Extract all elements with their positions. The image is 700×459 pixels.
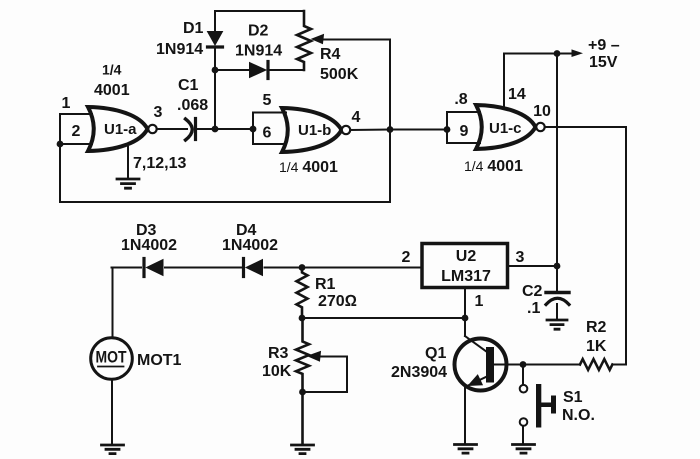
svg-text:D2: D2 [248,23,269,40]
svg-text:2: 2 [72,123,81,140]
NOR gate U1-a (1/4 4001) [88,107,148,151]
svg-text:1: 1 [62,95,71,112]
ground: U1-a [117,179,139,188]
svg-text:R3: R3 [268,345,289,362]
diode D1 (1N914, vertical, cathode up... pointing down) [208,11,223,70]
svg-text:1: 1 [475,293,484,310]
Q1 emitter lead with arrow [465,376,488,444]
svg-text:270Ω: 270Ω [318,293,357,310]
svg-text:15V: 15V [589,54,618,71]
label R3 [268,345,289,362]
svg-text:14: 14 [508,86,526,103]
ground: R3 [292,445,314,454]
wire: U1-b input tie pins 5/6 [253,113,286,145]
label 1N4002 value of D3 [121,237,177,254]
wire: U1-a output to C1 [157,128,187,130]
label 270ohm value of R1 [318,293,357,310]
resistor R3 potentiometer 10K [296,318,309,444]
label N.O. [562,407,595,424]
node: U1-c input junction [444,126,451,133]
svg-text:MOT1: MOT1 [137,352,182,369]
label S1 [563,389,583,406]
wire: junction up to D1/D2 node [214,70,216,129]
S1 button bar [536,384,556,428]
svg-text:1/4: 1/4 [102,62,122,78]
resistor R1 270ohm [297,268,308,319]
U1-a output bubble pin 3 [148,125,156,133]
label 1N914 value of D1 [156,41,203,58]
node: adjust junction [462,315,469,322]
svg-text:.068: .068 [177,97,208,114]
label pin 2 [72,123,81,140]
ground: C2 [547,320,567,329]
label 1/4 4001 under U1-b [279,159,338,176]
label .1 value of C2 [527,300,540,317]
label pin 3 of U2 [516,249,525,266]
diode D2 (1N914, horizontal, pointing right) [215,62,304,79]
svg-text:U1-a: U1-a [104,121,137,138]
label R2 [586,319,607,336]
svg-text:2N3904: 2N3904 [391,364,447,381]
Q1 base bar [486,347,494,383]
svg-text:MOT: MOT [96,349,127,367]
label MOT inside motor [96,349,127,367]
svg-text:1/4 4001: 1/4 4001 [279,159,338,176]
label R4 [320,46,341,63]
svg-text:+9 –: +9 – [588,37,620,54]
label 4001 [94,82,130,99]
label D4 [236,222,257,239]
node: R3 bottom junction [299,389,306,396]
label pin 9 [460,123,469,140]
power: +9-15V supply arrow [557,49,583,57]
label 1K value of R2 [586,338,607,355]
transistor Q1 2N3904 [455,339,507,391]
node: D1/D2 anode junction [212,67,219,74]
node: R1 top junction [299,264,306,271]
node: pin 4 junction [387,126,394,133]
wire: U1-c input tie pins 8/9 [447,112,480,143]
label D1 [183,20,204,37]
svg-text:.1: .1 [527,300,540,317]
label 2N3904 value of Q1 [391,364,447,381]
label pin 8 [454,91,467,108]
label pin 6 [263,125,272,142]
node: Q1 base / R2 / S1 junction [520,361,527,368]
node: U2 pin3/C2 junction [554,263,561,270]
label R1 [315,276,336,293]
wire: top rail D1 anode to R4 top [215,10,304,12]
NOR gate U1-b (1/4 4001) [282,108,342,152]
svg-text:1N914: 1N914 [156,41,203,58]
label pin 5 [263,92,272,109]
svg-text:C1: C1 [178,77,199,94]
svg-text:R4: R4 [320,46,341,63]
U1-c output bubble pin 10 [536,123,544,131]
label pin 2 of U2 [402,249,411,266]
label 15V supply [589,54,618,71]
svg-text:1N4002: 1N4002 [222,237,278,254]
label pin 10 [533,103,551,120]
ground: motor [102,445,124,454]
svg-text:7,12,13: 7,12,13 [133,155,186,172]
label 500K value of R4 [320,66,359,83]
svg-text:4001: 4001 [94,82,130,99]
label U1-b [298,122,331,139]
label 1N4002 value of D4 [222,237,278,254]
motor MOT1 [91,338,133,380]
node: C1/D1 junction [212,126,219,133]
wire: R4 wiper down to pin 4 node [389,40,391,129]
node: U1-a input junction [57,141,64,148]
wire: U1-c output pin 10 to right rail [545,127,626,365]
capacitor C1 [186,119,196,141]
label D2 [248,23,269,40]
svg-text:LM317: LM317 [441,268,491,285]
svg-text:1N4002: 1N4002 [121,237,177,254]
wire: R1 bottom to U2 adjust pin 1 [302,317,465,319]
diode D4 (1N4002, pointing left) [244,259,263,277]
label pin 4 [352,109,361,126]
label pin 3 [154,104,163,121]
wire: U1-a pins 7,12,13 to ground [127,147,129,178]
wire: U1-a input tie pin1/pin2 [60,114,92,144]
label +9- supply [588,37,620,54]
wire: supply rail down to U2 pin 3 [556,54,558,267]
node: supply junction [554,50,561,57]
svg-text:C2: C2 [522,283,543,300]
svg-text:R2: R2 [586,319,607,336]
label .068 value of C1 [177,97,208,114]
wire: middle rail (U2 out to D4/D3) [112,267,422,269]
label pin 14 [508,86,526,103]
diode D3 (1N4002, pointing left) [144,259,163,277]
Q1 collector lead [465,336,487,352]
Q1 base lead [494,364,523,366]
node: R1 bottom junction [299,315,306,322]
U1-b output bubble pin 4 [342,126,350,134]
svg-text:3: 3 [516,249,525,266]
label 1/4 4001 under U1-c [464,158,523,175]
label pin 1 of U2 [475,293,484,310]
svg-text:2: 2 [402,249,411,266]
svg-text:U1-b: U1-b [298,122,331,139]
ground: S1 [513,445,535,454]
regulator U2 LM317 box [422,244,508,288]
svg-text:.8: .8 [454,91,467,108]
svg-text:R1: R1 [315,276,336,293]
wire: middle rail left end down to motor [112,268,114,339]
label U2 [456,248,477,265]
label D3 [136,222,157,239]
wire: base node to R2 [523,364,580,366]
wire: U2 pin 1 down to Q1 collector [464,289,466,337]
wire: feedback from U1-a input down-around to pin 4 node [60,129,390,202]
resistor R4 potentiometer 500K [297,11,311,70]
wire: U1-b output to U1-c input [350,129,447,132]
capacitor C2 [546,266,569,319]
R3 wiper arrow and short to bottom [306,352,347,393]
svg-text:D1: D1 [183,20,204,37]
svg-text:4: 4 [352,109,361,126]
ground: Q1 emitter [455,445,477,454]
label Q1 [425,345,446,362]
svg-text:U1-c: U1-c [489,120,522,137]
label LM317 [441,268,491,285]
svg-text:1N914: 1N914 [235,43,282,60]
wire: motor to ground [111,379,113,444]
svg-text:10: 10 [533,103,551,120]
svg-text:Q1: Q1 [425,345,446,362]
svg-text:500K: 500K [320,66,359,83]
NOR gate U1-c (1/4 4001) [476,105,536,149]
switch S1 pushbutton N.O. [520,365,528,444]
svg-text:9: 9 [460,123,469,140]
svg-text:10K: 10K [262,363,292,380]
label C2 [522,283,543,300]
resistor R2 1K [580,359,612,370]
label pin 1 [62,95,71,112]
svg-text:3: 3 [154,104,163,121]
node: U1-b input junction [250,126,257,133]
R4 wiper arrow [312,35,390,44]
wire: U2 pin 3 to supply rail [509,265,557,267]
label C1 [178,77,199,94]
svg-text:5: 5 [263,92,272,109]
wire: R2 right to rail [612,364,626,366]
svg-text:1K: 1K [586,338,607,355]
label MOT1 [137,352,182,369]
svg-text:S1: S1 [563,389,583,406]
wire: U1-c pin 14 to supply [504,54,557,109]
label U1-c [489,120,522,137]
label 1N914 value of D2 [235,43,282,60]
svg-text:1/4 4001: 1/4 4001 [464,158,523,175]
label 10K value of R3 [262,363,292,380]
label 7,12,13 [133,155,186,172]
svg-text:U2: U2 [456,248,477,265]
wire: C1 to U1-b input [197,128,254,130]
svg-text:6: 6 [263,125,272,142]
label U1-a [104,121,137,138]
motor underline [98,366,124,368]
label 1/4 [102,62,122,78]
svg-text:N.O.: N.O. [562,407,595,424]
